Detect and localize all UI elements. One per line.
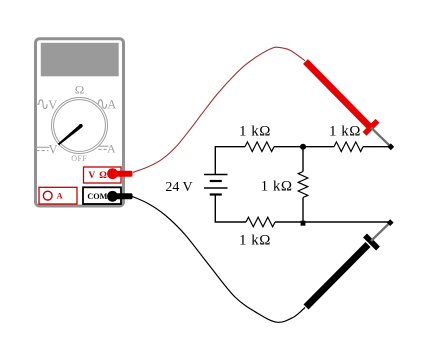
black lead plug [107, 191, 132, 202]
svg-text:A: A [107, 141, 116, 155]
wire: R4 to node B to black probe node [275, 221, 390, 223]
node: red probe contact [387, 143, 394, 150]
resistor R3 (middle) 1 kOhm [298, 172, 308, 198]
svg-text:1 kΩ: 1 kΩ [239, 233, 271, 249]
resistor R1 (top left) 1 kOhm [245, 142, 274, 152]
black test lead wire [132, 196, 305, 322]
jack COM (black) [83, 187, 121, 204]
multimeter body [36, 39, 124, 206]
node B junction dot [301, 221, 306, 226]
wire: R3 to node B [302, 198, 304, 223]
wire: battery top to R1 [215, 147, 245, 175]
resistor R4 (bottom) 1 kOhm [246, 217, 275, 227]
wire: R1 to node A [274, 146, 303, 148]
svg-text:24 V: 24 V [165, 180, 192, 195]
wire: R2 to red probe node [363, 146, 391, 148]
svg-text:COM: COM [87, 192, 107, 201]
jack V-ohm (red) [84, 167, 122, 183]
red lead plug [107, 168, 132, 179]
red probe [306, 62, 391, 147]
dial label DC volts [36, 143, 58, 157]
battery B1 [204, 175, 228, 195]
node: black probe contact [387, 219, 394, 226]
node A junction dot [300, 144, 306, 150]
rotary dial [52, 98, 108, 154]
svg-text:Ω: Ω [75, 85, 85, 97]
svg-text:V: V [48, 98, 57, 112]
jack A (red, unused) [39, 187, 77, 204]
knob needle [58, 124, 83, 145]
wire: node A to R2 [303, 146, 334, 148]
red test lead wire [133, 47, 305, 172]
wire: node A down to R3 [302, 147, 304, 172]
svg-text:1 kΩ: 1 kΩ [239, 124, 271, 140]
dial label AC volts [36, 98, 57, 112]
svg-text:V: V [49, 143, 58, 157]
svg-text:A: A [57, 190, 64, 200]
svg-text:1 kΩ: 1 kΩ [261, 179, 293, 195]
dial label AC amps [98, 98, 116, 112]
dial label DC amps [99, 141, 117, 155]
svg-text:A: A [107, 98, 116, 112]
svg-text:OFF: OFF [71, 154, 87, 163]
black probe [306, 223, 390, 307]
resistor R2 (top right) 1 kOhm [334, 142, 363, 152]
wire: battery bottom to R4 [215, 195, 246, 223]
multimeter display [41, 43, 119, 77]
svg-text:1 kΩ: 1 kΩ [329, 124, 361, 140]
svg-text:V Ω: V Ω [88, 171, 107, 181]
